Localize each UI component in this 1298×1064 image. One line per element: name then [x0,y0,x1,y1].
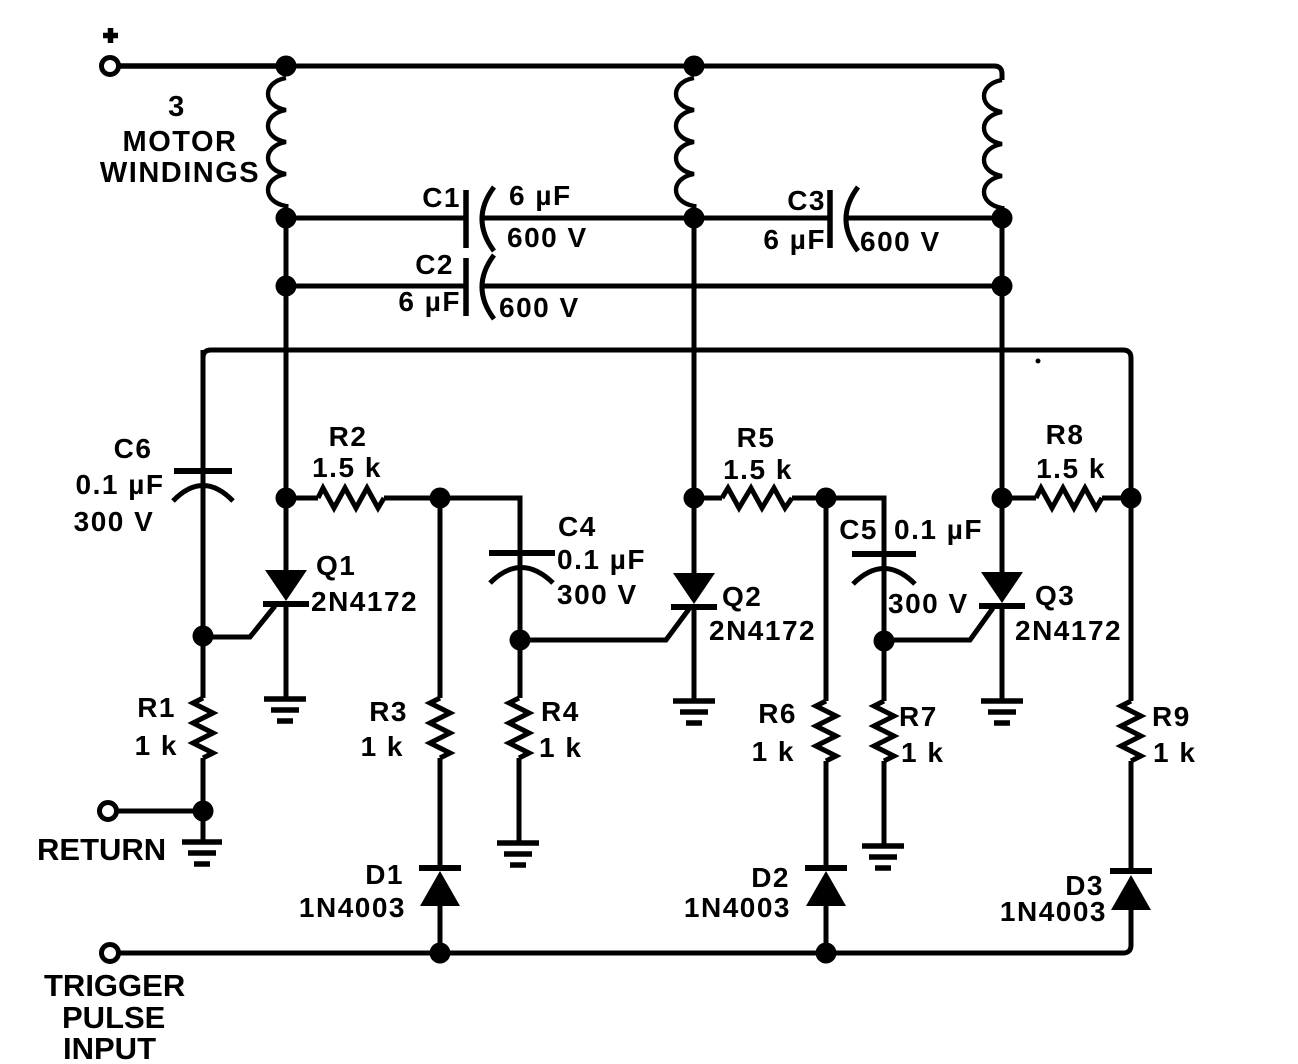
wire Q1 gate lead [203,606,275,637]
capacitor C1 [463,190,469,248]
wire C5 through line [882,500,887,641]
svg-text:D1: D1 [365,859,404,890]
wire top rail from winding L1 top to winding L2 top [286,64,694,69]
node R2 right / R3 top [430,488,451,509]
resistor R6 [816,701,836,761]
svg-text:Q3: Q3 [1035,580,1075,611]
svg-text:1 k: 1 k [752,736,795,767]
svg-text:C3: C3 [787,185,826,216]
svg-text:PULSE: PULSE [62,1000,165,1035]
node Q1 gate / C6 bottom / R1 top [193,626,214,647]
wire winding L2 bottom stub [692,204,697,220]
svg-text:2N4172: 2N4172 [1015,615,1122,646]
svg-text:1N4003: 1N4003 [1000,896,1107,927]
resistor R1 [193,698,213,758]
wire R3 to D1 [438,758,443,868]
node R8 left / Q3 anode [992,488,1013,509]
wire D2 to trigger rail [824,903,829,953]
node winding 1 bottom [276,208,297,229]
wire R9 vertical [1129,498,1134,701]
svg-text:Q2: Q2 [722,581,762,612]
svg-text:1N4003: 1N4003 [299,892,406,923]
svg-text:1 k: 1 k [361,731,404,762]
wire Q2 gate lead [520,609,689,640]
wire R5 left stub [694,496,722,501]
capacitor C4 [489,550,555,556]
wire R5 right stub [792,496,826,501]
wire RETURN ground stub [201,811,206,842]
wire R7 vertical [882,641,887,701]
ground Q2 cathode [673,701,715,723]
node RETURN junction [193,801,214,822]
svg-text:C1: C1 [422,182,461,213]
wire winding L1 bottom stub [284,204,289,220]
wire R2 right stub [384,496,440,501]
svg-text:2N4172: 2N4172 [311,586,418,617]
svg-text:R4: R4 [541,696,580,727]
motor winding L3 [984,80,1002,208]
svg-text:1 k: 1 k [135,730,178,761]
wire C2 right lead [483,284,1002,289]
svg-text:D2: D2 [751,862,790,893]
svg-text:1.5 k: 1.5 k [723,454,793,485]
svg-text:1 k: 1 k [901,737,944,768]
svg-text:6 µF: 6 µF [509,180,572,211]
wire D3 to trigger rail corner [1123,906,1131,953]
svg-text:INPUT: INPUT [63,1031,156,1064]
svg-text:0.1 µF: 0.1 µF [894,514,983,545]
svg-text:R5: R5 [737,422,776,453]
ground Q1 cathode [264,699,306,721]
svg-text:1 k: 1 k [1153,737,1196,768]
wire top rail from + terminal to winding L1 top [119,63,286,69]
resistor R9 [1121,701,1141,761]
wire C3 left lead [694,216,828,221]
svg-text:R9: R9 [1152,701,1191,732]
wire top rail from winding L2 top to winding L3 top corner [694,66,1002,80]
svg-text:R2: R2 [329,421,368,452]
diode D3 1N4003 [1110,868,1152,874]
terminal + (positive supply input) [103,28,118,43]
node R8 right / R9 top [1121,488,1142,509]
wire Q2 anode line [692,218,697,574]
node D1 on trigger rail [430,943,451,964]
node C2 right on Q3 anode line [992,276,1013,297]
stray mark [1036,359,1041,364]
ground R4 [497,843,539,865]
wire C1 left lead [286,216,464,221]
wire R2 left stub [286,496,318,501]
thyristor Q2 2N4172 [673,573,715,604]
node winding 2 bottom [684,208,705,229]
capacitor C3 [827,190,833,248]
wire C6 branch vertical [201,350,206,636]
svg-text:0.1 µF: 0.1 µF [76,469,165,500]
wire Q1 anode line [284,218,289,574]
wire R7 ground stub [882,761,887,846]
wire winding L3 bottom stub [1000,206,1005,220]
terminal TRIGGER PULSE INPUT [102,945,119,962]
terminal RETURN [100,803,117,820]
svg-text:R8: R8 [1046,419,1085,450]
svg-text:0.1 µF: 0.1 µF [557,544,646,575]
resistor R8 [1036,488,1102,508]
svg-text:Q1: Q1 [316,550,356,581]
node top of winding 1 [276,56,297,77]
resistor R5 [722,488,792,508]
wire Q3 anode line [1000,218,1005,574]
ground RETURN [182,842,222,864]
node top of winding 2 [684,56,705,77]
node R2 left / Q1 anode [276,488,297,509]
motor winding L2 [676,78,694,206]
resistor R3 [430,698,450,758]
resistor R4 [509,698,529,758]
resistor R2 [318,488,384,508]
thyristor Q3 2N4172 [981,572,1023,603]
ground Q3 cathode [981,701,1023,723]
svg-text:6 µF: 6 µF [763,224,826,255]
wire D1 to trigger rail [438,903,443,953]
wire R5 node to C5 top [826,498,884,556]
wire R8 right stub [1102,496,1131,501]
capacitor C2 [463,258,469,316]
svg-text:1 k: 1 k [539,732,582,763]
svg-text:R1: R1 [137,692,176,723]
wire R6 vertical [824,498,829,701]
wire C4 through line [518,500,523,640]
svg-text:WINDINGS: WINDINGS [100,157,260,189]
wire Q3 gate lead [884,608,993,640]
svg-text:300 V: 300 V [557,579,638,610]
svg-text:C2: C2 [415,249,454,280]
wire trigger pulse rail [119,951,1125,956]
wire C1 right lead [483,216,694,221]
wire R9 to D3 [1129,761,1134,871]
wire C3 right lead [847,216,1002,221]
node C5 bottom / R7 top / Q3 gate [874,631,895,652]
wire R1 top lead [201,636,206,698]
thyristor Q1 2N4172 [265,570,307,601]
wire R4 ground stub [517,758,522,843]
svg-text:1N4003: 1N4003 [684,892,791,923]
svg-text:300 V: 300 V [74,506,155,537]
svg-text:TRIGGER: TRIGGER [44,968,185,1003]
svg-text:C4: C4 [558,511,597,542]
svg-text:6 µF: 6 µF [398,286,461,317]
capacitor C6 [174,468,232,474]
svg-text:600 V: 600 V [860,226,941,257]
wire R3 vertical [438,498,443,698]
node D2 on trigger rail [816,943,837,964]
wire R2 node to C4 top [440,498,520,554]
svg-text:1.5 k: 1.5 k [1036,453,1106,484]
svg-text:R7: R7 [899,701,938,732]
svg-text:1.5 k: 1.5 k [312,452,382,483]
svg-text:600 V: 600 V [499,292,580,323]
svg-text:R3: R3 [369,696,408,727]
wire RETURN lead [117,809,203,814]
wire C2 left lead [286,284,464,289]
node winding 3 bottom [992,208,1013,229]
motor winding L1 [268,78,286,206]
svg-text:300 V: 300 V [888,588,969,619]
wire R1 bottom lead [201,758,206,811]
svg-text:C6: C6 [114,433,153,464]
svg-text:3: 3 [168,91,186,123]
node C2 left on Q1 anode line [276,276,297,297]
svg-text:RETURN: RETURN [37,832,166,867]
wire R8 left stub [1002,496,1036,501]
resistor R7 [874,701,894,761]
diode D1 1N4003 [419,865,461,871]
node C4 bottom / R4 top / Q2 gate [510,630,531,651]
svg-text:2N4172: 2N4172 [709,615,816,646]
capacitor C5 [852,551,916,557]
wire R6 to D2 [824,761,829,868]
svg-text:600 V: 600 V [507,222,588,253]
svg-text:MOTOR: MOTOR [123,126,238,158]
svg-text:C5: C5 [839,514,878,545]
wire R4 vertical [518,640,523,698]
node R5 right / R6 top [816,488,837,509]
wire trigger distribution rail [203,350,1131,498]
ground R7 [862,846,904,868]
diode D2 1N4003 [805,865,847,871]
svg-text:R6: R6 [758,698,797,729]
node R5 left / Q2 anode [684,488,705,509]
